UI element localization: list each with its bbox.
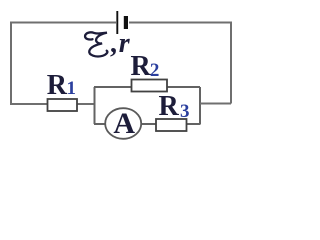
label r (internal resistance)	[119, 28, 131, 59]
svg-text:A: A	[113, 107, 135, 140]
battery short thick plate	[124, 16, 128, 29]
svg-text:3: 3	[180, 101, 190, 122]
wire bottom-left through R1	[10, 103, 95, 105]
battery long plate	[116, 11, 118, 34]
label EMF script E	[85, 32, 107, 56]
wire top branch through R2	[94, 86, 200, 88]
svg-text:r: r	[119, 28, 131, 59]
wire middle-right connector	[200, 103, 231, 105]
svg-text:1: 1	[67, 78, 77, 99]
resistor R1	[48, 99, 78, 111]
svg-text:2: 2	[150, 60, 160, 81]
label R3	[159, 91, 190, 122]
wire left vertical	[10, 22, 12, 105]
label comma after script E	[110, 28, 117, 59]
svg-text:R: R	[131, 51, 152, 82]
resistor R2	[132, 80, 168, 92]
label R2	[131, 51, 160, 82]
node left junction vertical	[94, 87, 96, 124]
ammeter U1 circle	[105, 108, 141, 139]
svg-text:R: R	[159, 91, 180, 122]
wire right vertical	[230, 22, 232, 104]
wire bottom branch through ammeter and R3	[94, 123, 200, 125]
resistor R3	[156, 119, 187, 131]
ammeter letter A	[113, 107, 135, 140]
svg-text:,: ,	[110, 28, 117, 59]
svg-text:R: R	[47, 70, 68, 101]
wire top-left segment to battery	[11, 22, 116, 24]
label R1	[47, 70, 76, 101]
wire top-right segment from battery	[129, 22, 231, 24]
node right junction vertical	[199, 87, 201, 125]
